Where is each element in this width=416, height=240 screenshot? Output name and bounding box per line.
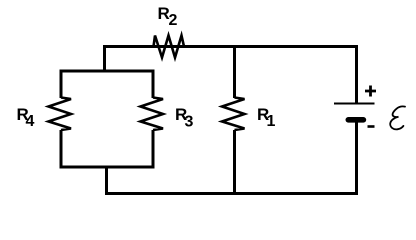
resistor R1 (middle branch zigzag)	[222, 98, 245, 131]
wire box right edge upper lead of R3	[152, 70, 155, 99]
wire bottom horizontal (node between box, R1, battery -)	[105, 192, 358, 195]
battery polarity minus sign	[368, 125, 375, 128]
battery polarity plus sign	[365, 86, 376, 97]
wire left vertical drop from top wire to parallel box	[103, 45, 106, 71]
resistor R4 (left edge of parallel box)	[49, 98, 72, 131]
battery cell E: negative plate (short thick bar)	[346, 117, 367, 123]
wire box top edge (connects R4 and R3 tops)	[60, 70, 155, 73]
wire bottom connector from box to bottom wire	[105, 166, 108, 194]
resistor R2 (horizontal zigzag in top wire)	[154, 36, 185, 58]
svg-text:4: 4	[26, 113, 35, 130]
wire battery branch lower lead	[355, 122, 358, 195]
wire R1 branch lower lead	[233, 130, 236, 195]
wire top horizontal (node between R2 branch, R1, battery +)	[103, 45, 358, 48]
svg-text:3: 3	[185, 114, 194, 131]
wire box left edge lower lead of R4	[60, 130, 63, 169]
resistor R3 (right edge of parallel box)	[141, 98, 164, 131]
svg-text:2: 2	[169, 12, 178, 29]
wire box right edge lower lead of R3	[152, 130, 155, 169]
label EMF script E	[390, 106, 405, 129]
wire box bottom edge (connects R4 and R3 bottoms)	[60, 166, 155, 169]
wire R1 branch upper lead	[233, 45, 236, 98]
wire box left edge upper lead of R4	[60, 70, 63, 99]
svg-text:1: 1	[267, 113, 276, 130]
wire battery branch upper lead	[355, 45, 358, 103]
battery cell E: positive plate (long thin line)	[334, 103, 375, 105]
